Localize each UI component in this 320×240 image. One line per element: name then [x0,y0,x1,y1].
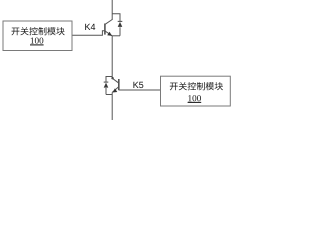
transistor K4 [105,20,112,36]
label K5 [133,82,143,88]
label module1 name [12,27,65,35]
wire K5 diode bottom branch [106,94,112,96]
module box 1 (switch control module) [3,21,72,51]
diode D5 [104,82,109,94]
label K4 [85,24,95,30]
transistor K5 [112,78,119,92]
node K5 collector junction [111,77,113,79]
module box 2 (switch control module) [161,76,231,106]
wire main rail top segment [111,0,113,20]
label module2 ref 100 [188,95,201,101]
label module2 name [170,82,223,90]
wire gate lead K4 [72,31,105,36]
wire gate lead K5 [119,89,161,91]
diode D4 [118,21,123,35]
wire K4 diode bottom branch [112,35,120,37]
label module1 ref 100 [31,37,44,43]
wire main rail bottom segment [111,92,113,120]
wire K4 diode top branch [112,14,120,21]
wire main rail middle segment [111,36,113,79]
wire K5 diode top branch [106,77,112,82]
